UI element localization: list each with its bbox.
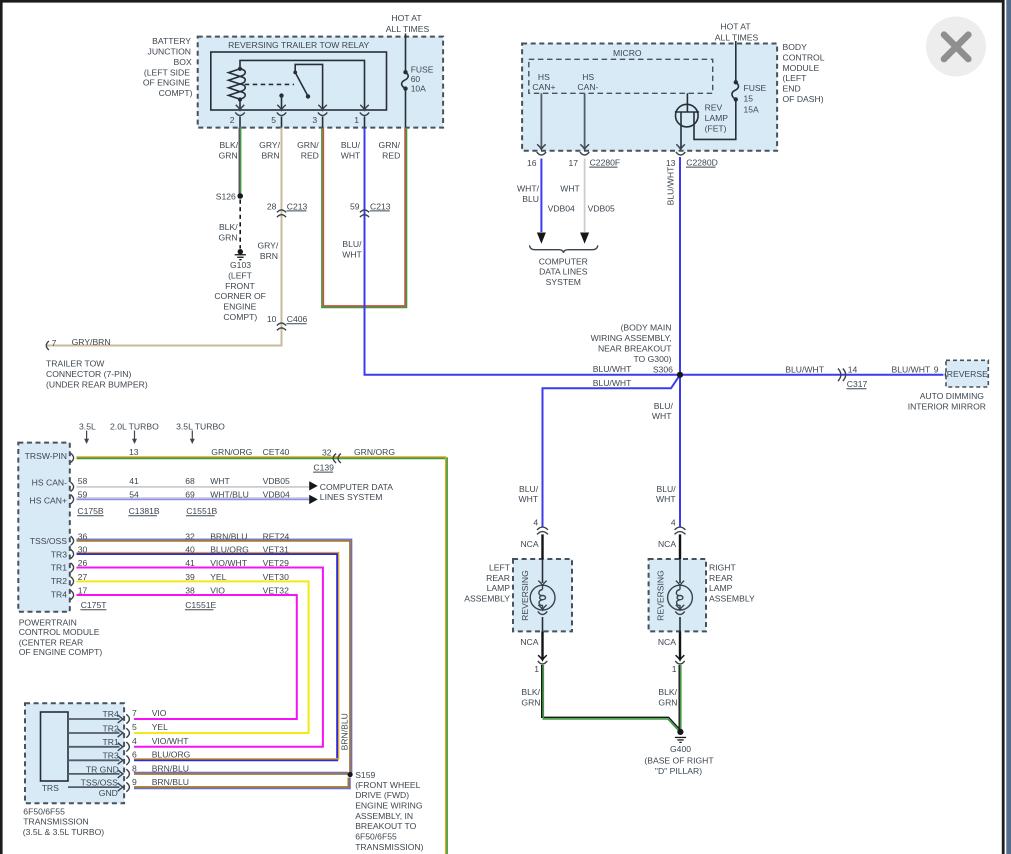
- svg-text:VET31: VET31: [263, 545, 289, 555]
- svg-text:LAMP: LAMP: [709, 583, 733, 593]
- svg-text:HOT AT: HOT AT: [391, 13, 422, 23]
- svg-text:17: 17: [568, 158, 578, 168]
- svg-text:BOX: BOX: [174, 57, 192, 67]
- svg-text:END: END: [783, 84, 801, 94]
- svg-text:RET24: RET24: [263, 531, 290, 541]
- svg-text:REAR: REAR: [709, 573, 733, 583]
- svg-text:10A: 10A: [411, 84, 426, 94]
- svg-text:GRN: GRN: [658, 698, 677, 708]
- svg-text:VDB05: VDB05: [588, 204, 615, 214]
- svg-text:NCA: NCA: [658, 539, 676, 549]
- svg-text:WHT: WHT: [656, 494, 676, 504]
- svg-text:C2280D: C2280D: [686, 158, 718, 168]
- svg-text:TRAILER TOW: TRAILER TOW: [46, 359, 105, 369]
- svg-text:GND: GND: [99, 788, 118, 798]
- svg-text:13: 13: [666, 158, 676, 168]
- svg-text:17: 17: [78, 586, 88, 596]
- svg-text:TRANSMISSION): TRANSMISSION): [355, 842, 423, 852]
- svg-text:GRN: GRN: [218, 232, 237, 242]
- svg-text:BLU/: BLU/: [519, 484, 539, 494]
- svg-text:INTERIOR MIRROR: INTERIOR MIRROR: [908, 401, 986, 411]
- svg-text:36: 36: [78, 531, 88, 541]
- svg-text:VDB05: VDB05: [263, 476, 290, 486]
- svg-text:NCA: NCA: [658, 637, 676, 647]
- svg-text:TR3: TR3: [103, 751, 119, 761]
- svg-text:REVERSING: REVERSING: [520, 570, 530, 621]
- svg-text:1: 1: [534, 664, 539, 674]
- svg-text:CET40: CET40: [263, 447, 290, 457]
- svg-text:2: 2: [230, 115, 235, 125]
- svg-text:VET30: VET30: [263, 572, 289, 582]
- svg-text:VIO: VIO: [210, 586, 225, 596]
- svg-text:C1381B: C1381B: [129, 506, 160, 516]
- svg-text:16: 16: [527, 158, 537, 168]
- svg-text:BODY: BODY: [783, 42, 808, 52]
- svg-text:LAMP: LAMP: [705, 113, 729, 123]
- svg-text:FRONT: FRONT: [225, 281, 255, 291]
- svg-text:ASSEMBLY: ASSEMBLY: [709, 594, 755, 604]
- svg-text:S126: S126: [216, 192, 236, 202]
- svg-text:BREAKOUT TO: BREAKOUT TO: [355, 821, 416, 831]
- svg-text:(BODY MAIN: (BODY MAIN: [621, 323, 672, 333]
- svg-text:GRN/ORG: GRN/ORG: [354, 447, 395, 457]
- svg-text:HS: HS: [582, 72, 594, 82]
- svg-text:CORNER OF: CORNER OF: [214, 291, 266, 301]
- svg-text:NCA: NCA: [520, 637, 538, 647]
- svg-text:ASSEMBLY: ASSEMBLY: [464, 594, 510, 604]
- svg-text:WHT/: WHT/: [517, 184, 540, 194]
- svg-text:CONTROL: CONTROL: [783, 52, 825, 62]
- svg-text:VDB04: VDB04: [548, 204, 575, 214]
- svg-text:COMPT): COMPT): [159, 88, 193, 98]
- svg-text:TR4: TR4: [103, 709, 119, 719]
- svg-text:59: 59: [78, 490, 88, 500]
- svg-text:NCA: NCA: [520, 539, 538, 549]
- svg-text:58: 58: [78, 476, 88, 486]
- svg-text:WHT: WHT: [210, 476, 230, 486]
- svg-text:S306: S306: [653, 364, 673, 374]
- svg-text:VDB04: VDB04: [263, 490, 290, 500]
- svg-text:GRY/: GRY/: [257, 241, 278, 251]
- svg-text:GRN/: GRN/: [297, 140, 319, 150]
- svg-text:BLU/WHT: BLU/WHT: [593, 378, 632, 388]
- svg-text:(LEFT: (LEFT: [783, 73, 808, 83]
- svg-text:54: 54: [129, 490, 139, 500]
- svg-text:TRANSMISSION: TRANSMISSION: [23, 817, 88, 827]
- svg-text:C317: C317: [847, 379, 868, 389]
- svg-text:C213: C213: [370, 201, 391, 211]
- svg-text:9: 9: [132, 777, 137, 787]
- svg-text:3.5L TURBO: 3.5L TURBO: [176, 421, 225, 431]
- svg-text:GRN/: GRN/: [379, 140, 401, 150]
- svg-text:COMPT): COMPT): [223, 312, 257, 322]
- svg-text:BLU: BLU: [522, 194, 539, 204]
- svg-text:OF ENGINE: OF ENGINE: [143, 78, 191, 88]
- svg-text:FUSE: FUSE: [411, 64, 434, 74]
- svg-text:VET29: VET29: [263, 558, 289, 568]
- svg-text:DATA LINES: DATA LINES: [539, 267, 588, 277]
- svg-text:BLU/: BLU/: [342, 239, 362, 249]
- svg-text:4: 4: [132, 736, 137, 746]
- svg-text:30: 30: [78, 545, 88, 555]
- svg-text:(3.5L & 3.5L TURBO): (3.5L & 3.5L TURBO): [23, 827, 104, 837]
- svg-text:TR1: TR1: [51, 563, 67, 573]
- svg-text:BLU/ORG: BLU/ORG: [152, 750, 191, 760]
- svg-text:(FRONT WHEEL: (FRONT WHEEL: [355, 780, 420, 790]
- svg-text:(UNDER REAR BUMPER): (UNDER REAR BUMPER): [46, 379, 148, 389]
- svg-text:TR1: TR1: [103, 737, 119, 747]
- svg-text:4: 4: [533, 517, 538, 527]
- svg-text:WHT/BLU: WHT/BLU: [210, 490, 249, 500]
- svg-text:7: 7: [132, 708, 137, 718]
- svg-text:60: 60: [411, 74, 421, 84]
- svg-text:CONNECTOR (7-PIN): CONNECTOR (7-PIN): [46, 369, 131, 379]
- svg-text:GRN: GRN: [219, 150, 238, 160]
- svg-text:RED: RED: [382, 150, 400, 160]
- svg-text:10: 10: [267, 314, 277, 324]
- svg-text:YEL: YEL: [210, 572, 226, 582]
- svg-text:BRN: BRN: [260, 251, 278, 261]
- svg-text:BLK/: BLK/: [521, 687, 540, 697]
- svg-text:BLU/WHT: BLU/WHT: [785, 364, 824, 374]
- svg-text:VIO/WHT: VIO/WHT: [210, 558, 248, 568]
- svg-text:BLU/: BLU/: [654, 401, 674, 411]
- svg-text:41: 41: [129, 476, 139, 486]
- svg-text:VIO/WHT: VIO/WHT: [152, 736, 190, 746]
- svg-text:2.0L TURBO: 2.0L TURBO: [110, 421, 159, 431]
- svg-text:TSS/OSS: TSS/OSS: [30, 536, 68, 546]
- svg-text:YEL: YEL: [152, 722, 168, 732]
- svg-text:SYSTEM: SYSTEM: [546, 277, 581, 287]
- svg-text:BRN/BLU: BRN/BLU: [152, 777, 189, 787]
- svg-text:G103: G103: [230, 260, 251, 270]
- svg-text:OF ENGINE COMPT): OF ENGINE COMPT): [19, 647, 103, 657]
- svg-text:BLK/: BLK/: [658, 687, 677, 697]
- svg-text:68: 68: [185, 476, 195, 486]
- svg-text:REAR: REAR: [486, 573, 510, 583]
- svg-text:TR3: TR3: [51, 549, 67, 559]
- svg-text:LAMP: LAMP: [487, 583, 511, 593]
- svg-text:GRY/BRN: GRY/BRN: [72, 337, 111, 347]
- svg-text:9: 9: [934, 364, 939, 374]
- svg-text:REVERSING TRAILER TOW RELAY: REVERSING TRAILER TOW RELAY: [228, 40, 369, 50]
- svg-text:TRSW-PIN: TRSW-PIN: [25, 451, 67, 461]
- svg-text:5: 5: [271, 115, 276, 125]
- svg-text:COMPUTER DATA: COMPUTER DATA: [320, 482, 393, 492]
- svg-text:HS CAN+: HS CAN+: [30, 496, 68, 506]
- svg-text:14: 14: [848, 364, 858, 374]
- svg-text:6F50/6F55: 6F50/6F55: [23, 806, 65, 816]
- svg-text:CAN+: CAN+: [532, 82, 555, 92]
- svg-text:HS: HS: [538, 72, 550, 82]
- svg-text:WHT: WHT: [342, 249, 362, 259]
- svg-text:6F50/6F55: 6F50/6F55: [355, 832, 397, 842]
- svg-text:TRS: TRS: [42, 783, 59, 793]
- svg-text:C213: C213: [287, 201, 308, 211]
- svg-text:BLU/WHT: BLU/WHT: [593, 364, 632, 374]
- svg-text:BATTERY: BATTERY: [152, 36, 191, 46]
- svg-text:41: 41: [185, 558, 195, 568]
- svg-text:HOT AT: HOT AT: [720, 22, 751, 32]
- svg-text:REV: REV: [705, 103, 723, 113]
- svg-text:FUSE: FUSE: [744, 83, 767, 93]
- svg-text:JUNCTION: JUNCTION: [148, 47, 191, 57]
- svg-text:WHT: WHT: [341, 150, 361, 160]
- svg-text:GRN: GRN: [521, 698, 540, 708]
- svg-text:40: 40: [185, 545, 195, 555]
- svg-text:OF DASH): OF DASH): [783, 94, 824, 104]
- svg-text:HS CAN-: HS CAN-: [32, 477, 67, 487]
- svg-text:REVERSE: REVERSE: [947, 369, 988, 379]
- svg-text:WHT: WHT: [560, 184, 580, 194]
- svg-text:BLU/WHT: BLU/WHT: [892, 364, 931, 374]
- svg-text:C175T: C175T: [81, 600, 108, 610]
- svg-text:MODULE: MODULE: [783, 63, 820, 73]
- svg-text:32: 32: [185, 531, 195, 541]
- svg-text:REVERSING: REVERSING: [656, 570, 666, 621]
- svg-text:6: 6: [132, 750, 137, 760]
- svg-text:"D" PILLAR): "D" PILLAR): [655, 766, 702, 776]
- svg-text:3.5L: 3.5L: [79, 421, 96, 431]
- svg-text:ASSEMBLY, IN: ASSEMBLY, IN: [355, 811, 413, 821]
- svg-text:28: 28: [267, 202, 277, 212]
- svg-text:TR2: TR2: [51, 576, 67, 586]
- svg-text:5: 5: [132, 722, 137, 732]
- svg-text:13: 13: [129, 447, 139, 457]
- svg-text:3: 3: [312, 115, 317, 125]
- svg-text:G400: G400: [670, 744, 691, 754]
- svg-text:VIO: VIO: [152, 708, 167, 718]
- svg-text:59: 59: [350, 202, 360, 212]
- svg-text:C406: C406: [287, 314, 308, 324]
- svg-text:NEAR BREAKOUT: NEAR BREAKOUT: [598, 343, 672, 353]
- svg-text:WHT: WHT: [519, 494, 539, 504]
- svg-text:BRN/BLU: BRN/BLU: [340, 713, 350, 750]
- svg-text:WHT: WHT: [652, 411, 672, 421]
- svg-text:15: 15: [744, 94, 754, 104]
- svg-text:ALL TIMES: ALL TIMES: [715, 32, 759, 42]
- svg-text:C139: C139: [313, 463, 334, 473]
- svg-text:TO G300): TO G300): [633, 354, 671, 364]
- svg-text:(CENTER REAR: (CENTER REAR: [19, 637, 83, 647]
- svg-text:BLK/: BLK/: [219, 222, 238, 232]
- svg-text:38: 38: [185, 586, 195, 596]
- svg-text:27: 27: [78, 572, 88, 582]
- svg-text:TR4: TR4: [51, 590, 67, 600]
- svg-text:TR GND: TR GND: [86, 764, 119, 774]
- svg-text:(LEFT SIDE: (LEFT SIDE: [144, 67, 190, 77]
- svg-text:1: 1: [672, 664, 677, 674]
- svg-text:4: 4: [671, 517, 676, 527]
- svg-text:CONTROL MODULE: CONTROL MODULE: [19, 627, 100, 637]
- svg-text:TSS/OSS: TSS/OSS: [81, 778, 119, 788]
- svg-text:CAN-: CAN-: [577, 82, 598, 92]
- svg-text:BLU/ORG: BLU/ORG: [210, 545, 249, 555]
- svg-text:C1551B: C1551B: [186, 506, 217, 516]
- svg-text:(BASE OF RIGHT: (BASE OF RIGHT: [644, 755, 714, 765]
- svg-text:ENGINE WIRING: ENGINE WIRING: [355, 801, 423, 811]
- svg-text:GRN/ORG: GRN/ORG: [211, 447, 252, 457]
- svg-text:WIRING ASSEMBLY,: WIRING ASSEMBLY,: [591, 333, 672, 343]
- svg-text:TR2: TR2: [103, 723, 119, 733]
- svg-text:BLU/: BLU/: [341, 140, 361, 150]
- svg-text:BLU/WHT: BLU/WHT: [666, 166, 676, 205]
- svg-text:COMPUTER: COMPUTER: [539, 256, 588, 266]
- svg-text:(FET): (FET): [705, 123, 727, 133]
- svg-text:69: 69: [185, 490, 195, 500]
- svg-text:MICRO: MICRO: [613, 48, 642, 58]
- svg-text:AUTO DIMMING: AUTO DIMMING: [920, 391, 985, 401]
- svg-text:VET32: VET32: [263, 586, 289, 596]
- svg-text:BRN: BRN: [261, 150, 279, 160]
- svg-text:39: 39: [185, 572, 195, 582]
- svg-text:32: 32: [322, 447, 332, 457]
- svg-text:BLU/: BLU/: [656, 484, 676, 494]
- svg-text:ENGINE: ENGINE: [223, 302, 256, 312]
- svg-text:S159: S159: [355, 770, 375, 780]
- svg-text:15A: 15A: [744, 104, 759, 114]
- svg-text:POWERTRAIN: POWERTRAIN: [19, 617, 77, 627]
- svg-text:7: 7: [52, 338, 57, 348]
- svg-text:C175B: C175B: [77, 506, 104, 516]
- svg-text:DRIVE (FWD): DRIVE (FWD): [355, 790, 409, 800]
- svg-text:26: 26: [78, 558, 88, 568]
- svg-text:GRY/: GRY/: [259, 140, 280, 150]
- svg-text:1: 1: [354, 115, 359, 125]
- svg-text:LEFT: LEFT: [489, 562, 511, 572]
- svg-text:C1551E: C1551E: [185, 600, 216, 610]
- svg-text:ALL TIMES: ALL TIMES: [386, 24, 430, 34]
- svg-text:BLK/: BLK/: [219, 140, 238, 150]
- svg-text:C2280F: C2280F: [590, 158, 621, 168]
- svg-text:RIGHT: RIGHT: [709, 562, 736, 572]
- svg-text:BRN/BLU: BRN/BLU: [210, 531, 247, 541]
- svg-text:(LEFT: (LEFT: [228, 270, 253, 280]
- svg-text:LINES SYSTEM: LINES SYSTEM: [320, 492, 383, 502]
- svg-text:RED: RED: [301, 150, 319, 160]
